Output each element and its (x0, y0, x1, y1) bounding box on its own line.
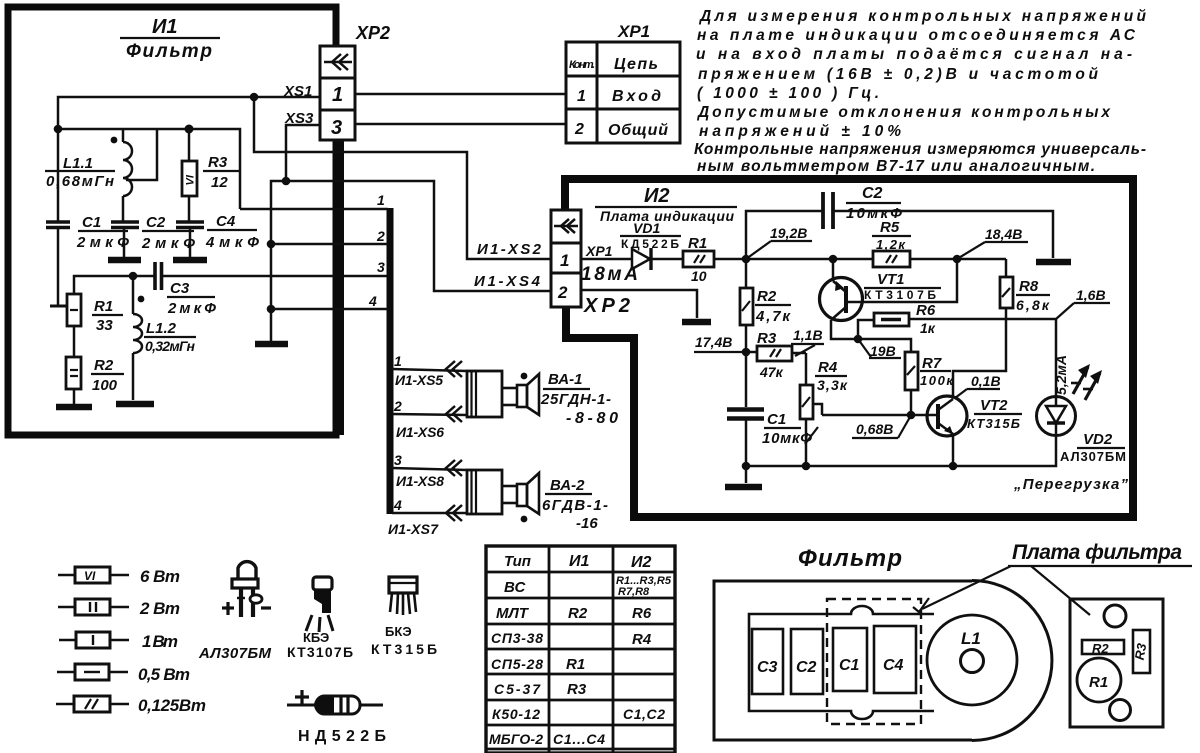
capacitor C2 (U1) (111, 222, 139, 257)
svg-text:0,68В: 0,68В (856, 421, 893, 437)
БКЭ label (385, 624, 412, 639)
R4 label (815, 359, 848, 393)
note text block (694, 8, 1147, 175)
svg-text:И1: И1 (569, 553, 590, 570)
svg-text:2: 2 (376, 228, 385, 244)
ground (C2) (1036, 259, 1071, 266)
svg-text:0,125Вт: 0,125Вт (138, 696, 206, 715)
capacitor C4 (U1) (176, 222, 204, 257)
svg-text:С1: С1 (767, 411, 786, 428)
svg-text:С2: С2 (146, 214, 166, 231)
node dot VT2 base (907, 411, 916, 420)
diode package КД522Б (287, 690, 383, 714)
svg-text:R2: R2 (757, 288, 777, 305)
КБЭ label (303, 630, 329, 645)
ground of R2 (56, 404, 92, 411)
svg-text:„Перегрузка”: „Перегрузка” (1013, 476, 1129, 493)
svg-text:Плата индикации: Плата индикации (600, 208, 734, 224)
connector XP1 (board I2) (551, 210, 581, 307)
svg-text:19,2В: 19,2В (770, 225, 807, 241)
pointer to filter board (1031, 566, 1090, 615)
svg-text:L1: L1 (961, 629, 981, 648)
svg-text:Контрольные напряжения измеряю: Контрольные напряжения измеряются универ… (694, 141, 1146, 158)
label ХР2 (583, 295, 630, 317)
svg-text:L1.1: L1.1 (63, 155, 93, 172)
wire XP2:1 to XP1 table (355, 93, 566, 96)
node dot on XS1 wire (250, 93, 259, 102)
svg-text:18мА: 18мА (581, 264, 638, 285)
svg-text:С2: С2 (796, 659, 817, 676)
speaker wire XS5 (392, 353, 467, 388)
svg-text:на плате индикации отсоединя: на плате индикации отсоединяется АС (697, 27, 1136, 44)
svg-text:R3: R3 (567, 681, 587, 698)
svg-text:VI: VI (84, 569, 96, 583)
inductor L1.2 (133, 276, 144, 400)
svg-text:6ГДВ-1-: 6ГДВ-1- (542, 497, 608, 514)
resistor R2 (I2) (740, 259, 753, 352)
wire top rail y=97 (58, 97, 320, 221)
svg-text:6 Вт: 6 Вт (140, 567, 180, 586)
R6 label (916, 302, 936, 336)
svg-text:12: 12 (211, 174, 228, 191)
VD1 label (620, 220, 681, 251)
svg-text:R3: R3 (208, 154, 228, 171)
pin number 4 (368, 293, 377, 309)
svg-text:VT2: VT2 (980, 397, 1008, 414)
svg-text:0,32мГн: 0,32мГн (145, 338, 196, 354)
svg-text:R6: R6 (916, 302, 936, 319)
node dot R3 top (185, 125, 194, 134)
node dot XS3 branch (282, 177, 291, 186)
svg-text:47к: 47к (759, 364, 784, 380)
node dot wire2 (267, 240, 276, 249)
wire R6 to VD2 (909, 318, 1056, 321)
capacitor C4 (filter) (874, 626, 916, 693)
svg-text:С3: С3 (757, 659, 778, 676)
wire 2 (271, 243, 388, 246)
wire R1 top / node y=276 (74, 276, 155, 294)
svg-text:КБЭ: КБЭ (303, 630, 329, 645)
svg-text:3: 3 (377, 259, 385, 275)
wire second rail y=129 (58, 129, 240, 209)
svg-text:Общий: Общий (608, 122, 668, 139)
svg-text:1к: 1к (920, 320, 936, 336)
filter board outline (1070, 599, 1163, 727)
wire XS1 branch down (254, 97, 551, 259)
svg-text:100: 100 (92, 377, 118, 394)
wire И1-XS4 run (286, 181, 551, 291)
resistor R5 (873, 251, 910, 267)
svg-text:И2: И2 (631, 554, 652, 571)
svg-text:К50-12: К50-12 (492, 706, 540, 722)
resistor R7 (905, 352, 918, 415)
svg-text:6,8к: 6,8к (1016, 297, 1050, 313)
resistor R1 (U1) (67, 294, 81, 357)
pin number 1 (377, 192, 385, 208)
svg-text:2: 2 (574, 121, 584, 138)
node dot left rail y129 (54, 125, 63, 134)
transistor package КТ315Б (389, 577, 417, 615)
resistor R1 (board) (1077, 658, 1121, 702)
ground of C4 (173, 257, 207, 264)
transistor VT2 (927, 396, 967, 466)
connector table XP1 (566, 42, 680, 143)
svg-text:R2: R2 (568, 605, 588, 622)
callout 1,1В (791, 327, 824, 356)
svg-text:100к: 100к (920, 373, 954, 388)
diode VD1 (632, 248, 651, 270)
transistor package КТ3107Б (306, 577, 333, 632)
node dot rail x957 (953, 255, 962, 264)
node dot VT1 emitter/rail (829, 255, 838, 264)
node dot 17,4В (742, 348, 751, 357)
label И1-XS2 (477, 241, 542, 258)
resistor R8 (953, 259, 1013, 398)
loudspeaker BA-2 (467, 470, 539, 522)
main rail wire y=259 (581, 258, 1006, 261)
svg-text:R2: R2 (1092, 641, 1109, 656)
wire C1 to ground (745, 466, 748, 483)
svg-text:АЛ307БМ: АЛ307БМ (198, 645, 272, 662)
svg-text:1,2к: 1,2к (876, 237, 906, 252)
capacitor C1 (I2) (727, 410, 764, 467)
svg-text:4,7к: 4,7к (755, 308, 791, 325)
resistor R1 (I2) (683, 251, 714, 267)
filter inner frame (749, 606, 934, 719)
pin number 3 (377, 259, 385, 275)
legend resistor 0.5W (57, 664, 190, 684)
svg-text:3: 3 (331, 117, 342, 139)
svg-text:2: 2 (557, 283, 568, 302)
svg-text:4: 4 (393, 497, 402, 513)
BA-1 label (540, 371, 618, 427)
svg-text:R4: R4 (818, 359, 838, 376)
svg-text:И1-XS8: И1-XS8 (396, 473, 444, 489)
wire XS3 branch (286, 125, 321, 181)
svg-text:БКЭ: БКЭ (385, 624, 412, 639)
label Плата фильтра (1008, 541, 1192, 566)
svg-text:АЛ307БМ: АЛ307БМ (1060, 449, 1126, 464)
svg-text:С1: С1 (82, 214, 101, 231)
callout 19В (858, 339, 901, 359)
svg-text:VD1: VD1 (633, 220, 660, 236)
svg-text:СП5-28: СП5-28 (491, 656, 543, 672)
svg-text:ВС: ВС (504, 579, 526, 596)
capacitor C2 (filter) (791, 629, 823, 694)
I2 board label И2 Плата индикации (595, 185, 737, 224)
capacitor C3 (U1) (155, 262, 162, 290)
svg-text:R4: R4 (632, 631, 652, 648)
svg-text:R5: R5 (880, 219, 900, 236)
svg-text:С4: С4 (216, 213, 236, 230)
svg-text:С5-37: С5-37 (494, 681, 541, 697)
svg-text:И1-XS7: И1-XS7 (388, 521, 439, 537)
label Перегрузка (1013, 476, 1129, 493)
wire 4 (271, 308, 388, 311)
svg-text:25ГДН-1-: 25ГДН-1- (540, 391, 611, 408)
resistor R4 (I2) trimmer (800, 353, 822, 466)
BA-2 label (542, 477, 608, 532)
R3 label (203, 154, 240, 191)
legend resistor 2W (58, 599, 180, 618)
capacitor C1 (U1, on left rail) (46, 222, 70, 306)
ground (C1) (725, 484, 762, 491)
connector XP2 (320, 46, 355, 140)
speaker wire XS8 (392, 452, 467, 489)
ground (cell2) (682, 319, 711, 326)
svg-text:Конт.: Конт. (569, 59, 595, 71)
svg-text:R1: R1 (688, 235, 707, 252)
node dot wire4 (267, 305, 276, 314)
svg-text:-16: -16 (576, 515, 598, 532)
svg-text:1,1В: 1,1В (793, 327, 823, 343)
C2 label (846, 185, 902, 222)
R1 label (92, 298, 123, 334)
svg-text:R1: R1 (566, 656, 585, 673)
legend resistor 1W (59, 632, 178, 651)
wire R2 to C1 (745, 352, 748, 407)
wire VT1 collector node (831, 320, 911, 352)
svg-text:1,6В: 1,6В (1076, 287, 1106, 303)
svg-text:C1,C2: C1,C2 (623, 706, 665, 722)
svg-text:18,4В: 18,4В (985, 226, 1022, 242)
node dot R4 bottom (802, 462, 811, 471)
svg-text:R1: R1 (94, 298, 113, 315)
capacitor C3 (filter) (752, 629, 783, 694)
svg-text:МЛТ: МЛТ (496, 605, 530, 622)
wire to VD2 anode + label 5,2мА (1053, 319, 1069, 397)
ground of L1.2 (116, 401, 154, 408)
pin number 2 (376, 228, 385, 244)
svg-text:и на вход платы подаётся си: и на вход платы подаётся сигнал на- (696, 46, 1132, 63)
svg-text:4: 4 (368, 293, 377, 309)
I2 board outline (565, 179, 1133, 517)
wire VT1 base (847, 259, 957, 302)
speaker wire XS7 (388, 497, 467, 537)
dashed board boundary (827, 599, 921, 724)
svg-text:ХР2: ХР2 (355, 23, 390, 43)
svg-text:VT1: VT1 (877, 271, 905, 288)
XP2 label (355, 23, 390, 43)
svg-text:R7: R7 (922, 355, 942, 372)
ground of C2 (108, 257, 141, 264)
C1 label (762, 411, 818, 447)
label ХР1 (585, 243, 613, 259)
wire R4 wiper to VT2 base (822, 414, 938, 417)
resistor R3 (board) (1132, 630, 1150, 673)
svg-text:И1: И1 (152, 16, 178, 38)
label И1-XS4 (474, 273, 541, 290)
svg-text:С4: С4 (883, 657, 904, 674)
svg-text:Тип: Тип (504, 553, 531, 570)
L1.1 value label (45, 155, 115, 190)
resistor R2 (U1) (66, 357, 81, 404)
capacitor C1 (filter) (833, 628, 867, 691)
node dot rail/R2/C2 (742, 255, 751, 264)
callout 0,68В (852, 417, 910, 438)
svg-text:( 1000 ± 100 ) Гц.: ( 1000 ± 100 ) Гц. (697, 85, 879, 102)
bottom rail wire (746, 465, 953, 468)
wire ground branch x=271 (271, 181, 286, 341)
wire XP2:3 to XP1 table (355, 123, 566, 126)
VT2 label (967, 397, 1022, 431)
node dot collector (854, 335, 863, 344)
legend resistor 0.125W (56, 696, 206, 715)
LED package АЛ307БМ (222, 562, 271, 617)
svg-text:1 Вт: 1 Вт (142, 632, 178, 651)
svg-text:3: 3 (394, 452, 402, 468)
svg-text:ХР2: ХР2 (583, 295, 630, 317)
svg-text:L1.2: L1.2 (146, 320, 177, 337)
bundle bracket to speakers (thick) (387, 208, 394, 514)
svg-text:Для измерения контрольных н: Для измерения контрольных напряжений (698, 8, 1147, 25)
svg-text:И1-XS6: И1-XS6 (396, 424, 444, 440)
wire cell2 to ground (581, 290, 697, 318)
loudspeaker BA-1 (467, 371, 539, 417)
ground of branch (255, 341, 288, 348)
parts table (486, 546, 675, 753)
node dot C1 bottom (742, 462, 751, 471)
svg-text:ВА-2: ВА-2 (550, 477, 585, 494)
pointer to dashed boundary (913, 566, 1011, 612)
label Фильтр (798, 545, 902, 572)
svg-text:R3: R3 (1132, 641, 1150, 661)
svg-text:КТ315Б: КТ315Б (967, 416, 1020, 431)
svg-text:XP1: XP1 (617, 22, 650, 41)
svg-text:0,5 Вт: 0,5 Вт (138, 665, 190, 684)
XS1 label (283, 83, 312, 100)
filter drawing outline (714, 581, 1052, 741)
wire rail to C2 (746, 211, 822, 259)
callout 0,1В (955, 373, 1001, 398)
wire 3 from C3 to bundle (162, 275, 388, 278)
wire C2 to ground (834, 211, 1053, 258)
board hole top (1104, 605, 1126, 627)
capacitor C2 (I2) (823, 192, 833, 229)
svg-text:И2: И2 (644, 185, 670, 207)
svg-text:2: 2 (393, 398, 402, 414)
svg-text:R6: R6 (632, 605, 652, 622)
resistor R6 (858, 313, 909, 339)
C2 label (141, 214, 195, 252)
svg-text:КТ3107Б: КТ3107Б (287, 644, 353, 660)
R8 label (1016, 278, 1050, 313)
svg-text:R3: R3 (757, 330, 777, 347)
svg-text:ным вольтметром В7-17 или а: ным вольтметром В7-17 или аналогичным. (697, 158, 1095, 175)
XS3 label (284, 110, 314, 127)
svg-text:R7,R8: R7,R8 (618, 586, 650, 598)
svg-text:33: 33 (96, 317, 113, 334)
R2 (I2) label (755, 288, 791, 325)
svg-text:1: 1 (394, 353, 402, 369)
resistor R3 (U1) (182, 129, 197, 221)
svg-text:2 Вт: 2 Вт (139, 599, 180, 618)
svg-text:3,3к: 3,3к (817, 377, 848, 393)
КТ315Б label (371, 641, 437, 657)
svg-text:С2: С2 (862, 185, 883, 202)
svg-text:ВА-1: ВА-1 (548, 371, 582, 388)
svg-text:И1-XS5: И1-XS5 (395, 372, 443, 388)
VD2 label (1060, 431, 1126, 464)
svg-text:И1-XS2: И1-XS2 (477, 241, 542, 258)
svg-text:ХР1: ХР1 (585, 243, 613, 259)
R5 label (872, 219, 911, 252)
svg-text:VD2: VD2 (1083, 431, 1113, 448)
svg-text:10: 10 (691, 268, 707, 284)
svg-text:СП3-38: СП3-38 (491, 630, 543, 646)
R2 label (91, 357, 124, 394)
L1.2 label (144, 320, 196, 354)
inductor L1.1 (111, 129, 157, 221)
КД522Б label (298, 728, 386, 745)
svg-text:1: 1 (560, 251, 569, 270)
XP2 cable (thick) (334, 140, 344, 435)
svg-text:С3: С3 (170, 280, 190, 297)
callout 17,4В (694, 334, 742, 352)
node dot VT2 emitter (949, 462, 958, 471)
svg-text:пряжением (16В ± 0,2)В и част: пряжением (16В ± 0,2)В и частотой (698, 66, 1099, 83)
C3 label (167, 280, 216, 317)
wire VD2 cathode to rail (953, 434, 1056, 466)
svg-text:R2: R2 (94, 357, 114, 374)
АЛ307БМ label (198, 645, 272, 662)
U1 board label И1 Фильтр (120, 16, 220, 62)
svg-text:0,1В: 0,1В (971, 373, 1001, 389)
svg-text:Плата фильтра: Плата фильтра (1012, 541, 1182, 564)
R7 label (920, 355, 954, 388)
LED VD2 (1037, 364, 1103, 436)
svg-text:C1...C4: C1...C4 (553, 731, 605, 747)
speaker wire XS6 (392, 398, 467, 440)
callout 1,6В (1056, 287, 1110, 319)
svg-text:R8: R8 (1019, 278, 1039, 295)
svg-text:С1: С1 (839, 657, 860, 674)
C1 label (76, 214, 129, 251)
svg-text:17,4В: 17,4В (695, 334, 732, 350)
svg-text:1: 1 (577, 88, 586, 105)
resistor R3 (I2) (746, 346, 806, 361)
VT1 label (864, 271, 941, 302)
svg-text:10мкФ: 10мкФ (762, 430, 812, 447)
legend resistor 6W (58, 567, 180, 586)
L1 label (961, 629, 981, 648)
svg-text:19В: 19В (870, 343, 896, 359)
C4 label (205, 213, 259, 251)
callout 19,2В (746, 225, 812, 259)
board hole bottom (1110, 700, 1131, 721)
callout 18,4В (957, 226, 1028, 259)
КТ3107Б label (287, 644, 353, 660)
svg-text:Фильтр: Фильтр (798, 545, 902, 572)
coil L1 (filter) (927, 615, 1017, 705)
svg-text:XS1: XS1 (283, 83, 312, 100)
R3 (I2) label (757, 330, 784, 380)
node dot L1.2 top (129, 272, 138, 281)
resistor R2 (board) (1082, 640, 1124, 656)
wire 1 (240, 208, 388, 211)
svg-text:МБГО-2: МБГО-2 (489, 731, 543, 747)
label 18мА (581, 264, 638, 285)
svg-text:5,2мА: 5,2мА (1053, 355, 1069, 395)
transistor VT1 (820, 259, 863, 321)
svg-text:1: 1 (332, 84, 343, 106)
XP1 label (617, 22, 650, 41)
svg-text:1: 1 (377, 192, 385, 208)
svg-text:VI: VI (185, 174, 197, 185)
R1 (I2) label (688, 235, 707, 284)
svg-text:R1: R1 (1089, 674, 1108, 691)
U1 board outline (8, 7, 336, 435)
